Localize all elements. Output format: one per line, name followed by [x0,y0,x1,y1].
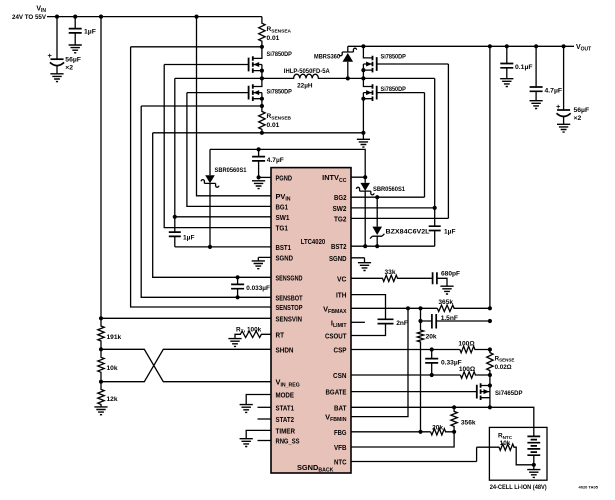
battery pack box [489,427,547,480]
svg-text:SBR0560S1: SBR0560S1 [373,186,405,193]
svg-text:RT: RT [276,330,285,339]
junction VOUT rail / feedback sense line [488,44,492,48]
junction Q5 top lead [488,383,492,387]
junction battery negative / RNTC [532,463,536,467]
wire VOUT feedback sense vertical [489,46,491,308]
ground at RT [228,339,241,347]
svg-text:BAT: BAT [334,403,347,412]
wire VFBMIN to VFBMAX riser [351,308,408,416]
diode D3 SBR0560S1 boost channel 2 [364,177,366,246]
svg-text:0.02Ω: 0.02Ω [495,364,512,371]
capacitor C8 1uF boost channel 1 [174,217,176,247]
junction Q1 source/body tie [260,69,264,73]
resistor R8 100 ohm CSP [460,346,490,352]
svg-text:LTC4020: LTC4020 [301,237,326,246]
svg-text:×2: ×2 [574,115,582,122]
svg-text:BST2: BST2 [331,242,347,251]
resistor R1 191k [98,318,104,349]
svg-text:MBRS360: MBRS360 [314,54,340,61]
svg-text:Si7465DP: Si7465DP [495,390,523,397]
wire PVIN bus vertical from VIN rail [197,17,272,196]
resistor R2 10k [98,349,104,381]
ground at PGND [252,181,265,189]
ground SGND right [358,263,371,271]
capacitor C2 56uF x2 input electrolytic [56,17,58,74]
wire BG2 gate lead [377,92,425,94]
junction SENSBOT / filter cap [236,295,240,299]
junction BST2 / D3 [363,244,367,248]
junction INTVCC rail / 4.7uF bypass [257,147,261,151]
resistor RSENSEB 0.01 [259,106,265,133]
junction CSP / 0.33uF [430,347,434,351]
svg-text:56µF: 56µF [65,56,81,63]
svg-text:24V TO 55V: 24V TO 55V [12,14,47,21]
svg-text:BZX84C6V2L: BZX84C6V2L [386,229,430,236]
svg-text:4.7µF: 4.7µF [545,87,563,94]
node junction RSENSEA bottom / Q1 drain / SENSTOP bus [260,45,264,49]
diode D2 SBR0560S1 boost channel 1 [209,149,211,247]
resistor R7 20k vertical [417,321,423,432]
junction SW1 pin / boost cap C8 [173,215,177,219]
junction BG2 / zener [375,195,379,199]
svg-text:4020 TA05: 4020 TA05 [579,485,599,490]
wire BGATE pin to Q5 gate [351,391,477,393]
svg-text:Si7850DP: Si7850DP [267,51,293,58]
wire SENSTOP bus horizontal to RSENSEA bottom [131,46,262,48]
junction divider tap 1 [99,347,103,351]
diode D1 MBRS360 schottky to VOUT [347,46,349,78]
svg-text:0.1µF: 0.1µF [515,64,533,71]
svg-text:4.7µF: 4.7µF [267,157,284,164]
svg-text:Si7850DP: Si7850DP [381,54,407,61]
svg-text:SGND: SGND [276,253,294,262]
wire SENSBOT bus horizontal [141,105,262,107]
capacitor C1 1uF input [74,17,76,45]
svg-text:SENSTOP: SENSTOP [276,303,303,312]
wire TG2 pin [351,217,448,219]
wire BG2 pin [351,196,425,198]
resistor R10 RSENSE 0.02 ohm [487,350,493,376]
wire BG1 bus horizontal to Q2 gate [187,92,249,94]
svg-text:0.033µF: 0.033µF [246,285,270,292]
wire compensation cap to CSOUT [351,324,386,336]
resistor R11 356k [451,407,457,432]
junction 365k / VOUT sense [488,306,492,310]
ground SGND left [252,261,265,269]
diode D4 BZX84C6V2L zener [376,197,378,246]
svg-text:100Ω: 100Ω [458,340,475,347]
svg-text:SW2: SW2 [333,204,347,213]
ground below divider [94,407,107,415]
wire RNG_SS stub [258,440,272,442]
junction SENSGND / filter cap [236,275,240,279]
svg-text:TG1: TG1 [276,224,289,233]
junction FBG / 20k riser [418,430,422,434]
transistor Q4 Si7850DP bottom right NMOS [363,78,372,132]
svg-text:SW1: SW1 [276,213,290,222]
svg-text:PGND: PGND [276,173,293,182]
svg-text:MODE: MODE [276,391,295,400]
junction VOUT rail / Q3 drain [361,44,365,48]
wire VIN rail [47,16,262,18]
transistor Q1 Si7850DP top left NMOS [253,47,262,79]
junction SW2 pin / boost cap [433,206,437,210]
wire TG2 bus vertical [447,64,449,218]
wire CSN pin [351,374,460,376]
transistor Q2 Si7850DP bottom left NMOS [253,78,262,106]
junction BST1 / D2 [208,245,212,249]
wire SW2 pin [351,207,435,209]
ground at VC filter [440,286,453,294]
wire BST2 pin [351,245,435,247]
svg-text:STAT2: STAT2 [276,415,295,424]
capacitor C6 4.7uF INTVCC bypass [258,149,260,177]
svg-text:SENSVIN: SENSVIN [276,314,303,323]
wire FBG pin [351,431,431,433]
wire ITH to compensation cap [351,295,386,320]
wire 1.5nF branch vertical [421,308,432,321]
junction SENSVIN / divider top [99,316,103,320]
wire SENSBOT bus vertical [141,106,271,297]
svg-text:FBG: FBG [334,428,347,437]
wire SW1 bus vertical [175,78,271,216]
svg-text:356k: 356k [461,419,476,426]
svg-text:20k: 20k [426,334,437,341]
capacitor C12 1.5nF [432,314,436,329]
svg-text:RNG_SS: RNG_SS [276,437,300,446]
junction divider tap 2 [99,380,103,384]
ground battery negative [533,465,535,470]
svg-text:IHLP-5050FD-5A: IHLP-5050FD-5A [284,68,331,75]
node junction RSENSEB bottom / power ground wire [260,131,264,135]
svg-text:1.5nF: 1.5nF [441,315,458,322]
svg-text:×2: ×2 [65,64,73,71]
junction VOUT rail / 4.7uF [534,44,538,48]
junction Q3 source/body tie [361,68,365,72]
junction CSN / RSENSE bottom / Q5 [488,373,492,377]
svg-text:1µF: 1µF [444,229,456,236]
svg-text:1µF: 1µF [183,235,195,242]
capacitor C9 0.033uF sense filter [237,277,239,297]
wire TG1 bus horizontal to Q1 gate [164,64,248,66]
svg-text:SGND: SGND [329,254,347,263]
junction VIN rail / 1uF cap [73,15,77,19]
junction VIN rail / PVIN line [194,15,198,19]
wire SENSVIN vertical from VIN rail to divider [101,17,271,319]
svg-text:24-CELL Li-ION (48V): 24-CELL Li-ION (48V) [490,484,547,491]
inductor L1 IHLP-5050FD-5A 22uH [262,74,348,78]
svg-text:VFB: VFB [334,443,347,452]
svg-text:SENSGND: SENSGND [276,273,303,282]
svg-text:+: + [556,102,561,111]
resistor R6 365k [437,305,490,311]
resistor R4 RT 100k [235,331,271,339]
ground at TIMER [240,439,253,447]
capacitor C3 0.1uF output [506,46,508,78]
svg-text:365k: 365k [438,299,453,306]
svg-text:CSOUT: CSOUT [325,332,347,341]
svg-text:CSN: CSN [333,371,347,380]
wire SGND right pin [351,258,365,263]
junction Q4 source/body tie [361,97,365,101]
node junction Q2 source / RSENSEB top / SENSBOT bus [260,104,264,108]
wire TG1 bus vertical [164,65,271,228]
wire BG1 bus vertical [187,93,271,207]
wire INTVCC rail [210,149,365,177]
svg-text:2nF: 2nF [396,320,408,327]
wire SW2 node to SW2 bus vertical [348,77,435,79]
svg-text:RT, 100k: RT, 100k [236,326,262,333]
svg-text:1µF: 1µF [84,29,96,36]
svg-text:SENSBOT: SENSBOT [276,293,303,302]
junction 356k bottom / 20k / VFB [452,430,456,434]
ground power stage right [362,133,364,140]
junction 1.5nF / VOUT sense [488,319,492,323]
node junction inductor right / MBRS360 anode [346,76,350,80]
node SW2 switch junction [361,76,365,80]
junction VFBMAX / 1.5nF branch [418,306,422,310]
op-amp U1 LTC4020 controller IC body [271,168,351,473]
svg-text:STAT1: STAT1 [276,403,295,412]
wire BAT pin to battery [351,407,534,436]
wire SW2 bus vertical [434,78,436,208]
resistor R3 12k [98,382,104,407]
capacitor C13 0.33uF sense filter [431,350,433,376]
wire SGND left pin [258,257,271,261]
resistor R5 33k on VC [351,275,433,281]
svg-text:191k: 191k [107,334,122,341]
svg-text:0.01: 0.01 [267,122,280,129]
wire NTC pin [351,447,477,461]
svg-text:TIMER: TIMER [276,426,296,435]
capacitor C5 56uF x2 output electrolytic [563,46,565,124]
capacitor C4 4.7uF output [535,46,537,100]
svg-text:100Ω: 100Ω [459,366,476,373]
svg-text:BST1: BST1 [276,243,292,252]
svg-text:+: + [48,51,53,60]
junction VOUT rail / 0.1uF [505,44,509,48]
capacitor C10 680pF on VC [433,272,437,284]
svg-text:56µF: 56µF [574,107,590,114]
wire TIMER pin to ground [246,430,271,438]
wire MODE pin to ground [246,395,271,405]
wire SENSTOP bus vertical [131,47,271,307]
junction VIN rail / SENSVIN divider line [99,15,103,19]
wire VFB pin riser [351,432,454,447]
svg-text:22µH: 22µH [297,83,313,90]
wire crossover tap2 to SHDN [101,349,271,381]
svg-text:VC: VC [337,274,347,283]
transistor Q5 Si7465DP PMOS battery switch [481,375,490,407]
junction PGND / C6 / ground [257,175,261,179]
junction BAT / Q5 source [488,405,492,409]
resistor R12 20k FBG [431,429,455,435]
junction CSP / RSENSE top [488,347,492,351]
svg-text:TG2: TG2 [334,214,347,223]
capacitor C7 1uF boost channel 2 [434,208,436,246]
ground at MODE [240,405,253,413]
svg-text:SBR0560S1: SBR0560S1 [215,167,247,174]
wire VOUT rail [348,45,574,47]
node SW1 switch junction [260,76,264,80]
junction 1.5nF branch [418,319,422,323]
wire VFBMAX pin [351,307,437,309]
junction INTVCC pin [363,175,367,179]
svg-text:12k: 12k [107,396,118,403]
wire ILIMIT stub [351,321,365,323]
svg-text:10k: 10k [500,440,511,447]
resistor R13 RNTC 10k thermistor [477,444,534,465]
wire SW1 bus horizontal to switch node [175,77,262,79]
wire power ground bus from SENSGND corner to right bridge ground [153,132,364,134]
ground below C2 [50,74,63,82]
node junction power ground / Q4 source [361,131,365,135]
svg-text:BG1: BG1 [276,202,289,211]
junction BAT / 356k [452,405,456,409]
capacitor C11 2nF compensation [378,319,394,323]
ground below C1 [69,45,82,53]
wire STAT1 stub [258,406,272,408]
svg-text:10k: 10k [107,365,118,372]
junction CSN / 0.33uF [430,373,434,377]
wire TG2 gate lead [377,63,449,65]
resistor R9 100 ohm CSN [460,372,490,378]
wire STAT2 stub [258,418,272,420]
junction VIN rail / 56uF cap [55,15,59,19]
svg-text:0.01: 0.01 [267,35,280,42]
svg-text:20k: 20k [432,424,443,431]
wire CSP pin [351,349,460,351]
svg-text:33k: 33k [384,269,395,276]
resistor RSENSEA 0.01 [259,17,265,47]
svg-text:680pF: 680pF [441,270,460,277]
svg-text:Si7850DP: Si7850DP [267,89,293,96]
wire BST1 pin [175,246,271,248]
junction VFBMAX / VFBMIN riser [406,306,410,310]
wire crossover tap1 to VIN_REG [101,349,271,381]
svg-text:BG2: BG2 [334,193,347,202]
junction BST2 / zener [375,244,379,248]
svg-text:NTC: NTC [334,458,347,467]
svg-text:BGATE: BGATE [326,388,347,397]
junction VOUT rail / 56uF [562,44,566,48]
wire SENSGND bus vertical [153,133,271,277]
wire BG2 bus vertical [424,93,426,198]
wire PGND pin to bypass ground [259,176,271,178]
transistor Q3 Si7850DP top right NMOS [363,46,372,78]
svg-text:ITH: ITH [336,291,347,300]
ground below C4 [530,101,543,109]
battery B1 24-cell stack [527,436,540,455]
svg-text:SHDN: SHDN [276,345,294,354]
svg-text:CSP: CSP [334,346,347,355]
ground below C3 [500,79,513,87]
ground below C5 [557,124,570,132]
junction Q2 source/body tie [260,97,264,101]
